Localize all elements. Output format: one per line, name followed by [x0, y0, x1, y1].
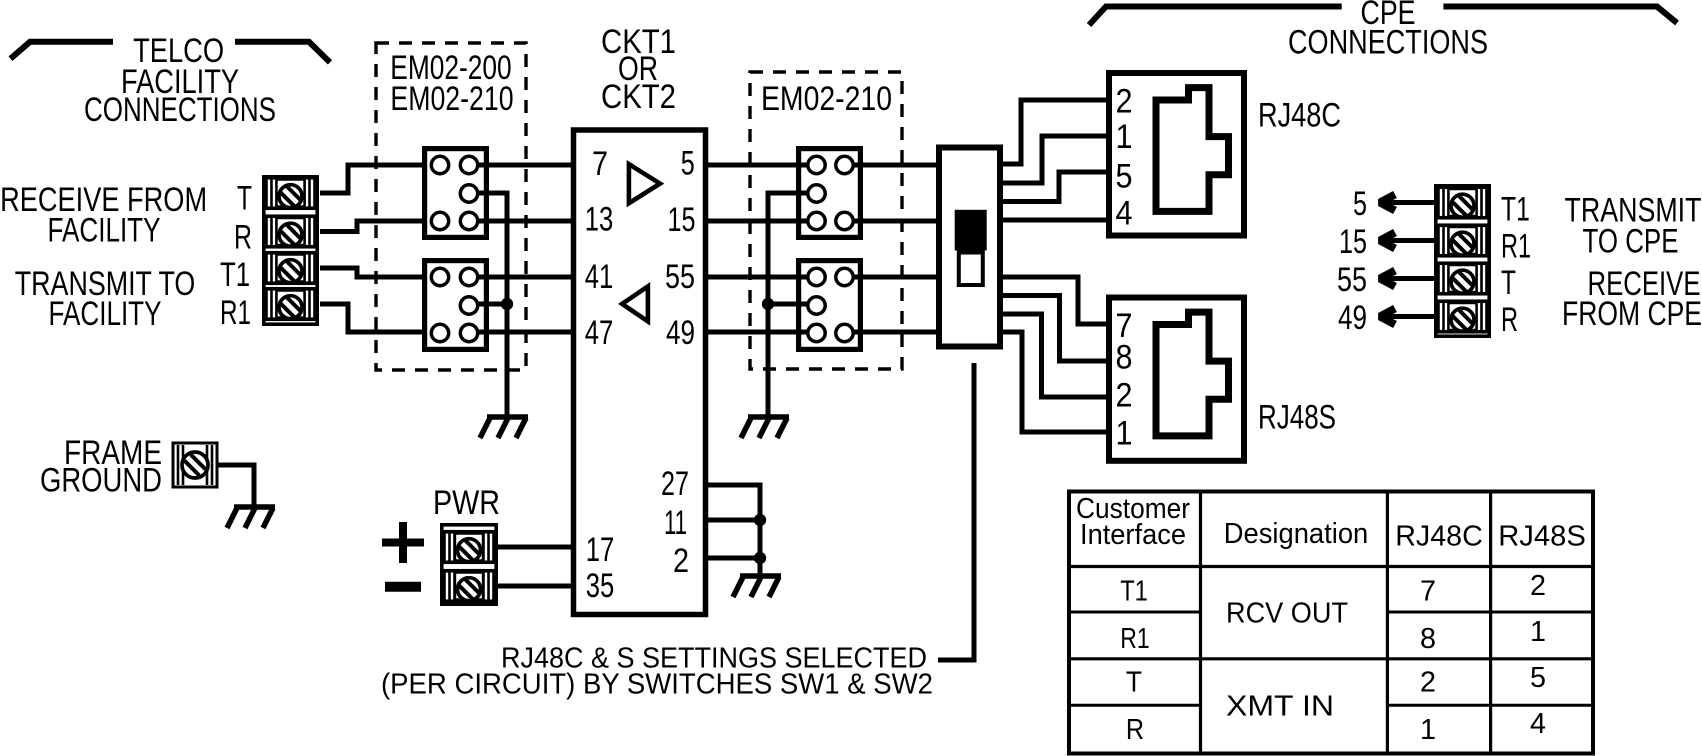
svg-text:41: 41	[585, 258, 614, 296]
wire CKT pin 27 to ground bus	[706, 485, 760, 576]
svg-text:55: 55	[665, 258, 695, 296]
jack RJ48S opening profile	[1156, 312, 1229, 436]
svg-text:EM02-210: EM02-210	[390, 80, 513, 118]
module outline EM02-210 (dashed)	[750, 72, 902, 369]
ground G2 (EM02 right shield)	[741, 417, 789, 438]
svg-text:RJ48S: RJ48S	[1258, 399, 1336, 437]
ground G1 (EM02 left shield)	[480, 417, 528, 438]
svg-text:2: 2	[673, 542, 689, 580]
wire SW to RJ48C pin 5	[1003, 172, 1106, 202]
svg-text:8: 8	[1420, 623, 1436, 655]
svg-text:FROM CPE: FROM CPE	[1562, 295, 1702, 333]
connector block J1 (EM02-200 top)	[425, 149, 487, 238]
wire CKT pin 2 to ground bus	[706, 556, 760, 561]
wire J2 to CKT pin 47	[478, 330, 572, 335]
wire R: TB1 to J1 pin	[320, 221, 431, 232]
jack RJ48S body	[1109, 298, 1244, 461]
wire CKT pin 5 to J3	[706, 163, 808, 168]
circuit box U1 (CKT1 or CKT2)	[574, 130, 706, 615]
svg-text:CONNECTIONS: CONNECTIONS	[84, 91, 276, 129]
terminal block TB3 (CPE) with screws T1 R1 T R	[1436, 186, 1489, 336]
terminal block TB1 (telco facility) with screws T R T1 R1	[264, 177, 317, 324]
svg-text:R: R	[1126, 714, 1144, 746]
svg-text:Designation: Designation	[1224, 518, 1369, 550]
wire SW to RJ48C pin 4	[1003, 218, 1106, 223]
terminal block TB2 (PWR) 2 screws	[442, 525, 496, 604]
wire SW to RJ48S pin 2	[1003, 314, 1106, 397]
svg-text:5: 5	[1116, 158, 1133, 196]
svg-text:CKT2: CKT2	[601, 78, 676, 116]
label RECEIVE FROM CPE	[1562, 265, 1702, 333]
wire SW to RJ48S pin 1	[1003, 332, 1106, 432]
arrow wire row 49	[1380, 309, 1434, 325]
wire CKT pin 55 to J4	[706, 275, 808, 280]
wire CKT pin 15 to J3	[706, 219, 808, 224]
svg-text:17: 17	[586, 531, 615, 569]
svg-text:XMT IN: XMT IN	[1226, 690, 1334, 722]
wire J2 to CKT pin 41	[478, 275, 572, 280]
junction J1/J2 shield	[501, 298, 513, 310]
junction pin 2 ground	[754, 552, 766, 564]
wire J3 to SW1 (row 5)	[853, 163, 936, 168]
svg-text:FACILITY: FACILITY	[48, 212, 161, 250]
pointer line from note to switch	[938, 363, 974, 660]
plus symbol (+ supply)	[382, 522, 424, 563]
CPE connections bracket	[1089, 7, 1677, 26]
connector block J3 (EM02-210 top)	[799, 149, 861, 238]
svg-text:49: 49	[1338, 299, 1367, 337]
label TRANSMIT TO FACILITY	[15, 265, 196, 333]
wire frame ground lug to ground	[217, 465, 254, 508]
svg-text:R: R	[234, 218, 252, 256]
svg-text:T: T	[1126, 667, 1142, 699]
svg-text:1: 1	[1116, 118, 1133, 156]
junction pin 11 ground	[754, 514, 766, 526]
wire + to CKT pin 17	[498, 545, 572, 550]
svg-text:49: 49	[666, 314, 695, 352]
wire T1: TB1 to J2 pin	[320, 268, 431, 277]
svg-text:2: 2	[1116, 377, 1133, 415]
wire SW to RJ48C pin 2	[1003, 100, 1106, 164]
svg-text:EM02-210: EM02-210	[761, 80, 892, 118]
label TELCO FACILITY CONNECTIONS	[84, 32, 276, 129]
svg-text:11: 11	[664, 504, 687, 542]
svg-text:(PER CIRCUIT) BY SWITCHES SW1: (PER CIRCUIT) BY SWITCHES SW1 & SW2	[381, 669, 933, 701]
svg-text:T: T	[1501, 264, 1516, 302]
svg-text:FACILITY: FACILITY	[49, 295, 162, 333]
wire J4 to SW2 (row 49)	[853, 330, 936, 335]
svg-text:7: 7	[592, 145, 608, 183]
svg-text:2: 2	[1530, 570, 1546, 602]
jack RJ48C opening profile	[1156, 88, 1229, 212]
svg-text:5: 5	[681, 144, 695, 182]
minus symbol (- supply)	[385, 582, 421, 592]
svg-text:1: 1	[1530, 616, 1546, 648]
svg-text:PWR: PWR	[433, 484, 500, 522]
arrow wire row 5	[1380, 195, 1434, 211]
svg-text:RJ48S: RJ48S	[1498, 521, 1586, 553]
svg-text:T1: T1	[1501, 191, 1530, 229]
svg-text:5: 5	[1353, 185, 1367, 223]
wire J1 to CKT pin 7	[478, 163, 572, 168]
buffer amp A2 (transmit, pointing left)	[622, 286, 648, 321]
svg-text:RJ48C: RJ48C	[1258, 97, 1341, 135]
junction J3/J4 shield	[762, 298, 774, 310]
svg-text:1: 1	[1116, 415, 1133, 453]
svg-text:R: R	[1501, 301, 1518, 339]
svg-text:RJ48C: RJ48C	[1395, 521, 1483, 553]
svg-text:R1: R1	[1120, 623, 1149, 655]
svg-text:35: 35	[586, 567, 615, 605]
svg-text:Interface: Interface	[1080, 519, 1186, 551]
wire J4 to SW2 (row 55)	[853, 275, 936, 280]
table grid (customer interface / designation / RJ48C / RJ48S)	[1069, 492, 1593, 754]
wire CKT pin 49 to J4	[706, 330, 808, 335]
table header Customer Interface	[1076, 493, 1190, 551]
svg-text:2: 2	[1420, 667, 1436, 699]
svg-text:5: 5	[1530, 662, 1546, 694]
svg-text:27: 27	[661, 465, 689, 503]
connector block J4 (EM02-210 bottom)	[799, 261, 861, 350]
jack RJ48C body	[1109, 73, 1244, 236]
switch slider slot (white)	[959, 253, 983, 286]
wire J2 shield branch	[478, 302, 507, 307]
svg-text:T1: T1	[220, 256, 250, 294]
wire R1: TB1 to J2 pin	[320, 304, 431, 332]
svg-text:7: 7	[1420, 575, 1436, 607]
svg-text:4: 4	[1116, 195, 1133, 233]
module outline EM02-200/EM02-210 (dashed)	[376, 43, 526, 370]
switch SW1/SW2 body	[939, 148, 1000, 347]
svg-text:4: 4	[1530, 708, 1546, 740]
wire T: TB1 to J1 pin	[320, 165, 431, 193]
svg-text:15: 15	[668, 201, 696, 239]
svg-text:2: 2	[1116, 83, 1133, 121]
svg-text:1: 1	[1420, 714, 1436, 746]
wire J3 to SW1 (row 15)	[853, 219, 936, 224]
svg-text:15: 15	[1339, 223, 1367, 261]
svg-text:TO CPE: TO CPE	[1583, 222, 1679, 260]
svg-text:8: 8	[1116, 339, 1133, 377]
arrow wire row 15	[1380, 233, 1434, 249]
label FRAME GROUND	[40, 434, 162, 500]
TELCO facility connections bracket	[11, 42, 331, 63]
connector block J2 (EM02-200 bottom)	[425, 261, 487, 350]
wire SW to RJ48C pin 1	[1003, 136, 1106, 183]
label RECEIVE FROM FACILITY	[0, 181, 207, 250]
ground G4 (frame ground)	[227, 507, 275, 528]
svg-text:R1: R1	[220, 294, 251, 332]
wire J4 shield branch	[768, 302, 808, 307]
svg-text:47: 47	[585, 314, 614, 352]
wire J3 shield to ground bus	[768, 193, 808, 415]
wire SW to RJ48S pin 7	[1003, 277, 1106, 324]
wire CKT pin 11 to ground bus	[706, 518, 760, 523]
wire SW to RJ48S pin 8	[1003, 296, 1106, 362]
wire - to CKT pin 35	[498, 584, 572, 589]
svg-text:55: 55	[1337, 261, 1367, 299]
svg-text:CONNECTIONS: CONNECTIONS	[1288, 24, 1488, 62]
label CPE CONNECTIONS	[1288, 0, 1488, 62]
ground G3 (CKT logic ground)	[733, 576, 781, 597]
switch slider knob (black)	[955, 210, 987, 251]
buffer amp A1 (receive, pointing right)	[629, 164, 660, 203]
svg-text:T: T	[237, 180, 252, 218]
terminal screw (frame ground lug)	[173, 443, 217, 487]
label TRANSMIT TO CPE	[1565, 192, 1702, 261]
svg-text:R1: R1	[1501, 227, 1531, 265]
svg-text:GROUND: GROUND	[40, 462, 162, 500]
svg-text:RCV OUT: RCV OUT	[1226, 597, 1348, 629]
svg-text:13: 13	[585, 201, 614, 239]
note RJ48C & S SETTINGS SELECTED (PER CIRCUIT) BY SWITCHES SW1 & SW2	[381, 643, 933, 701]
wire J1 to CKT pin 13	[478, 219, 572, 224]
label EM02-200 / EM02-210	[390, 49, 513, 118]
wire J1 shield to ground bus	[478, 193, 507, 415]
label CKT1 OR CKT2	[601, 23, 676, 116]
svg-text:T1: T1	[1120, 575, 1148, 607]
arrow wire row 55	[1380, 271, 1434, 287]
